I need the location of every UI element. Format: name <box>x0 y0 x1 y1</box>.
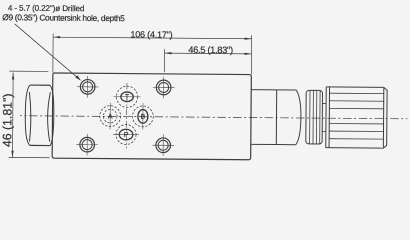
ribbed ring rib 2 <box>312 90 314 144</box>
knob right inner line <box>382 87 384 148</box>
knob bottom edge <box>326 147 384 149</box>
main centerline (dash-dot) <box>20 116 407 119</box>
port A: crosshair <box>109 103 111 130</box>
bolt hole bottom-right: outer countersink circle <box>156 138 171 153</box>
bolt hole top-left: crosshair <box>77 76 99 98</box>
port B: solid ellipse <box>138 110 148 124</box>
bolt hole bottom-left: inner drilled circle <box>82 140 92 150</box>
port A: outer dashed circle <box>100 106 121 127</box>
dimension 46 bottom arrow <box>11 151 13 158</box>
dimension 106 right arrow <box>245 38 252 40</box>
port T: crosshair <box>114 96 141 98</box>
dimension 46.5 extension line <box>163 49 165 72</box>
svg-text:Ø9 (0.35") Countersink hole, d: Ø9 (0.35") Countersink hole, depth5 <box>2 12 125 23</box>
dimension 46 top arrow <box>12 73 14 80</box>
port P: crosshair <box>113 133 139 135</box>
hex nut left inner arc <box>29 92 31 142</box>
svg-text:P: P <box>124 132 129 139</box>
dimension 46 top extension line <box>9 70 48 72</box>
knob knurl lines <box>329 93 384 139</box>
dimension 46.5 left arrow <box>164 52 171 54</box>
bolt hole top-left: outer countersink circle <box>80 79 95 94</box>
vertical centerline through ports T and P <box>125 83 128 148</box>
bolt hole top-right: crosshair <box>153 77 175 99</box>
dimension 106 right extension line <box>250 35 252 74</box>
port T: dashed circle <box>116 86 137 107</box>
dimension 106 left arrow <box>53 36 60 38</box>
ribbed ring rib 3 <box>315 90 317 144</box>
cylinder section 2 outline <box>276 90 296 145</box>
ribbed ring rib 4 <box>319 90 321 144</box>
dimension 46.5 line <box>165 52 252 55</box>
cylinder section 2 right arc <box>296 90 301 145</box>
port P: solid ellipse <box>119 129 133 140</box>
ribbed ring rib 1 <box>309 90 311 144</box>
dimension 106 left extension line <box>52 34 54 73</box>
knob left cap line 2 <box>328 87 330 148</box>
port B: crosshair <box>142 103 144 130</box>
knob left cap line 1 <box>325 87 327 148</box>
bolt hole top-right: outer countersink circle <box>156 80 171 95</box>
svg-text:46.5 (1.83"): 46.5 (1.83") <box>188 44 233 55</box>
leader line to countersink hole <box>14 24 79 79</box>
svg-text:B: B <box>141 114 146 121</box>
hex nut bottom edge <box>30 144 50 146</box>
dimension 46 vertical line <box>11 73 14 158</box>
port P: dashed circle <box>116 124 136 144</box>
dimension 106 line <box>53 37 251 39</box>
svg-text:46 (1.81"): 46 (1.81") <box>0 93 14 147</box>
shaft lines between ring and knob <box>322 103 326 131</box>
hex nut left outer arc <box>25 85 30 145</box>
bolt hole bottom-right: crosshair <box>152 134 174 156</box>
svg-text:A: A <box>108 114 113 121</box>
bolt hole bottom-right: inner drilled circle <box>158 140 168 150</box>
knob right end cap with chamfer <box>383 87 387 148</box>
cylinder section 1 outline <box>251 90 277 145</box>
dimension 46 bottom extension line <box>9 156 50 158</box>
valve body <box>52 73 251 160</box>
bolt hole bottom-left: crosshair <box>76 134 98 156</box>
knob top edge <box>326 86 384 88</box>
bolt hole top-right: inner drilled circle <box>159 82 169 92</box>
bolt hole bottom-left: outer countersink circle <box>80 137 95 152</box>
bolt hole top-left: inner drilled circle <box>83 82 93 92</box>
port T: solid ellipse <box>121 92 133 102</box>
port A: inner dashed circle <box>103 109 117 123</box>
cylinder section divider <box>275 90 277 145</box>
dimension 46.5 right arrow <box>244 53 251 55</box>
port B: dashed circle <box>132 106 153 127</box>
ribbed ring outline <box>306 90 323 144</box>
svg-text:106 (4.17"): 106 (4.17") <box>130 29 172 39</box>
hex nut right inner arc <box>47 92 50 142</box>
leader arrowhead <box>75 75 81 81</box>
hex nut top edge <box>30 84 50 86</box>
hex nut right outer arc <box>50 85 54 145</box>
